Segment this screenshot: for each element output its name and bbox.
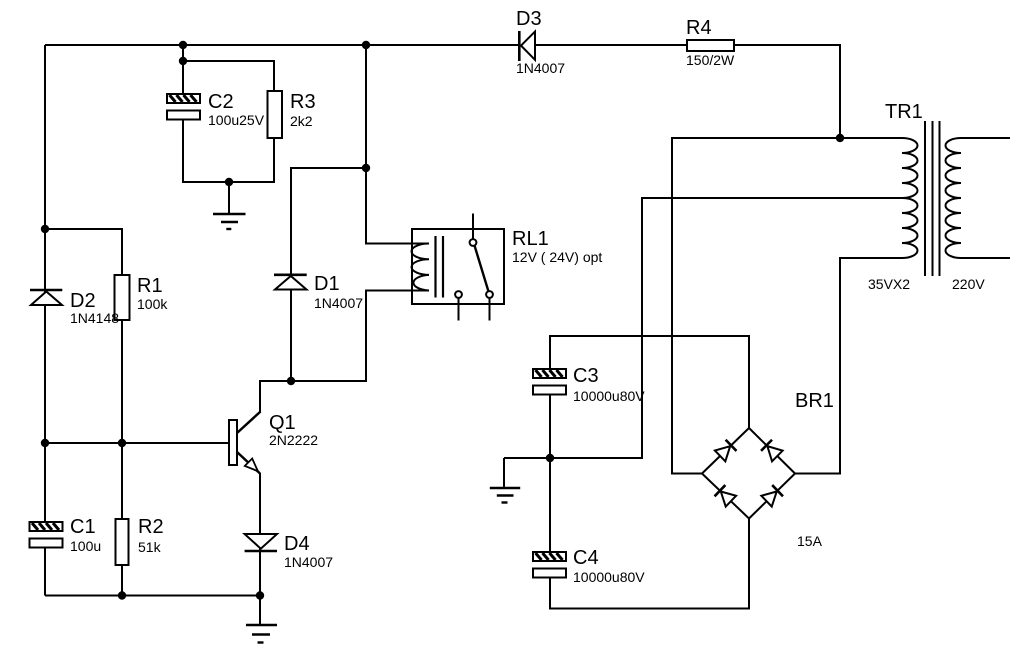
junction left rail at R1	[41, 225, 49, 233]
svg-text:R3: R3	[290, 91, 316, 113]
wire center node to C4 top	[549, 458, 551, 552]
junction ground node below C2	[225, 178, 233, 186]
junction C3/C4 center node	[546, 454, 554, 462]
wire R1 bottom to R2 top	[121, 320, 123, 519]
svg-text:51k: 51k	[138, 539, 162, 555]
wire BR1 bottom-left edge	[702, 474, 749, 519]
wire ground stem left of center node	[503, 458, 505, 487]
junction D1 bottom node	[287, 377, 295, 385]
bridge rectifier BR1 diode top-right	[761, 440, 783, 462]
wire left rail lower (C1 to bottom rail)	[44, 546, 46, 596]
wire mid horizontal to Q1 base	[45, 442, 229, 444]
svg-text:C1: C1	[70, 516, 96, 538]
wire BR1 bottom-right edge	[749, 474, 795, 519]
svg-text:2k2: 2k2	[290, 113, 313, 129]
wire R2 bottom lead	[121, 565, 123, 596]
capacitor C3	[533, 369, 566, 395]
wire left rail upper (top rail to C1)	[44, 45, 46, 522]
ground below D4	[246, 625, 277, 643]
svg-text:2N2222: 2N2222	[269, 432, 318, 448]
wire top rail down to node D1	[365, 45, 367, 168]
wire node to R3 top	[183, 61, 274, 91]
junction top rail at C2	[179, 41, 187, 49]
svg-text:15A: 15A	[797, 533, 823, 549]
wire C3 top to BR1 plus corner	[550, 336, 749, 428]
svg-text:220V: 220V	[952, 276, 985, 292]
junction left rail mid node	[41, 439, 49, 447]
wire top rail right segment to TR1 primary top	[734, 45, 840, 138]
wire node D1 branch	[291, 168, 366, 381]
wire TR1 primary top to BR1 left corner	[672, 138, 902, 474]
ground at center node	[490, 488, 520, 503]
junction R1/R2 node	[118, 439, 126, 447]
diode D2	[30, 290, 62, 305]
capacitor C2	[167, 94, 200, 120]
wire to relay coil top	[366, 168, 429, 244]
relay RL1	[412, 229, 505, 304]
svg-text:100u: 100u	[70, 538, 101, 554]
svg-text:RL1: RL1	[512, 228, 549, 250]
wire TR1 primary bottom to BR1 right corner	[795, 258, 902, 474]
svg-text:D4: D4	[284, 533, 310, 555]
bridge rectifier BR1 diode bottom-right	[761, 485, 783, 507]
svg-text:100u25V: 100u25V	[208, 112, 265, 128]
svg-text:1N4007: 1N4007	[284, 554, 333, 570]
junction C2/R3 node	[179, 57, 187, 65]
svg-text:C2: C2	[208, 91, 234, 113]
svg-text:10000u80V: 10000u80V	[573, 569, 645, 585]
svg-text:100k: 100k	[137, 296, 168, 312]
junction bottom rail at R2	[118, 591, 126, 599]
svg-text:1N4148: 1N4148	[70, 310, 119, 326]
svg-text:R4: R4	[686, 17, 712, 39]
wire bottom rail	[45, 595, 260, 597]
diode D3	[519, 31, 535, 61]
svg-text:TR1: TR1	[885, 101, 923, 123]
wire C4 bottom to BR1 minus corner	[550, 519, 749, 609]
wire TR1 center tap to center node	[504, 198, 902, 458]
transformer TR1	[902, 121, 961, 276]
wire top rail middle segment	[535, 44, 687, 46]
svg-text:1N4007: 1N4007	[314, 295, 363, 311]
svg-text:35VX2: 35VX2	[868, 276, 910, 292]
wire C3 bottom to center node	[549, 394, 551, 458]
wire BR1 top-right edge	[749, 428, 795, 474]
svg-text:150/2W: 150/2W	[686, 52, 735, 68]
wire C2 top lead	[182, 45, 184, 94]
junction TR1 primary top node	[836, 134, 844, 142]
junction top rail at D1 branch	[362, 41, 370, 49]
junction D1 top node	[362, 164, 370, 172]
svg-text:C3: C3	[573, 365, 599, 387]
svg-text:12V ( 24V) opt: 12V ( 24V) opt	[512, 249, 602, 265]
resistor R4	[687, 40, 734, 51]
wire top rail left segment	[45, 44, 519, 46]
wire relay coil bottom to Q1 collector	[260, 291, 429, 413]
wire BR1 top-left edge	[702, 428, 749, 474]
capacitor C4	[533, 552, 566, 578]
resistor R2	[116, 519, 129, 565]
ground below C2	[213, 214, 246, 229]
transistor Q1	[229, 412, 261, 474]
svg-text:10000u80V: 10000u80V	[573, 388, 645, 404]
svg-text:R1: R1	[137, 275, 163, 297]
svg-text:R2: R2	[138, 516, 164, 538]
diode D4	[245, 534, 277, 551]
wire relay top contact stub	[472, 214, 474, 240]
bridge rectifier BR1 diode top-left	[715, 440, 737, 462]
diode D1	[274, 275, 307, 290]
svg-text:D2: D2	[70, 290, 96, 312]
svg-text:1N4007: 1N4007	[516, 60, 565, 76]
wire TR1 secondary top	[961, 137, 1010, 139]
junction bottom rail at D4	[256, 591, 264, 599]
capacitor C1	[30, 522, 63, 548]
wire R3 bottom and C2 bottom	[183, 119, 274, 182]
svg-text:BR1: BR1	[795, 390, 834, 412]
resistor R3	[268, 91, 283, 138]
resistor R1	[115, 275, 130, 320]
wire relay bottom contact stub right	[489, 298, 491, 321]
bridge rectifier BR1 diode bottom-left	[715, 485, 737, 507]
wire Q1 emitter through D4 to ground	[259, 473, 261, 625]
wire relay bottom contact stub left	[458, 298, 460, 321]
svg-text:Q1: Q1	[269, 412, 296, 434]
wire TR1 secondary bottom	[961, 257, 1010, 259]
svg-text:D3: D3	[516, 8, 542, 30]
wire ground stem below C2	[228, 182, 230, 213]
svg-text:D1: D1	[314, 273, 340, 295]
wire node A to R1 top	[45, 229, 122, 275]
svg-text:C4: C4	[573, 547, 599, 569]
